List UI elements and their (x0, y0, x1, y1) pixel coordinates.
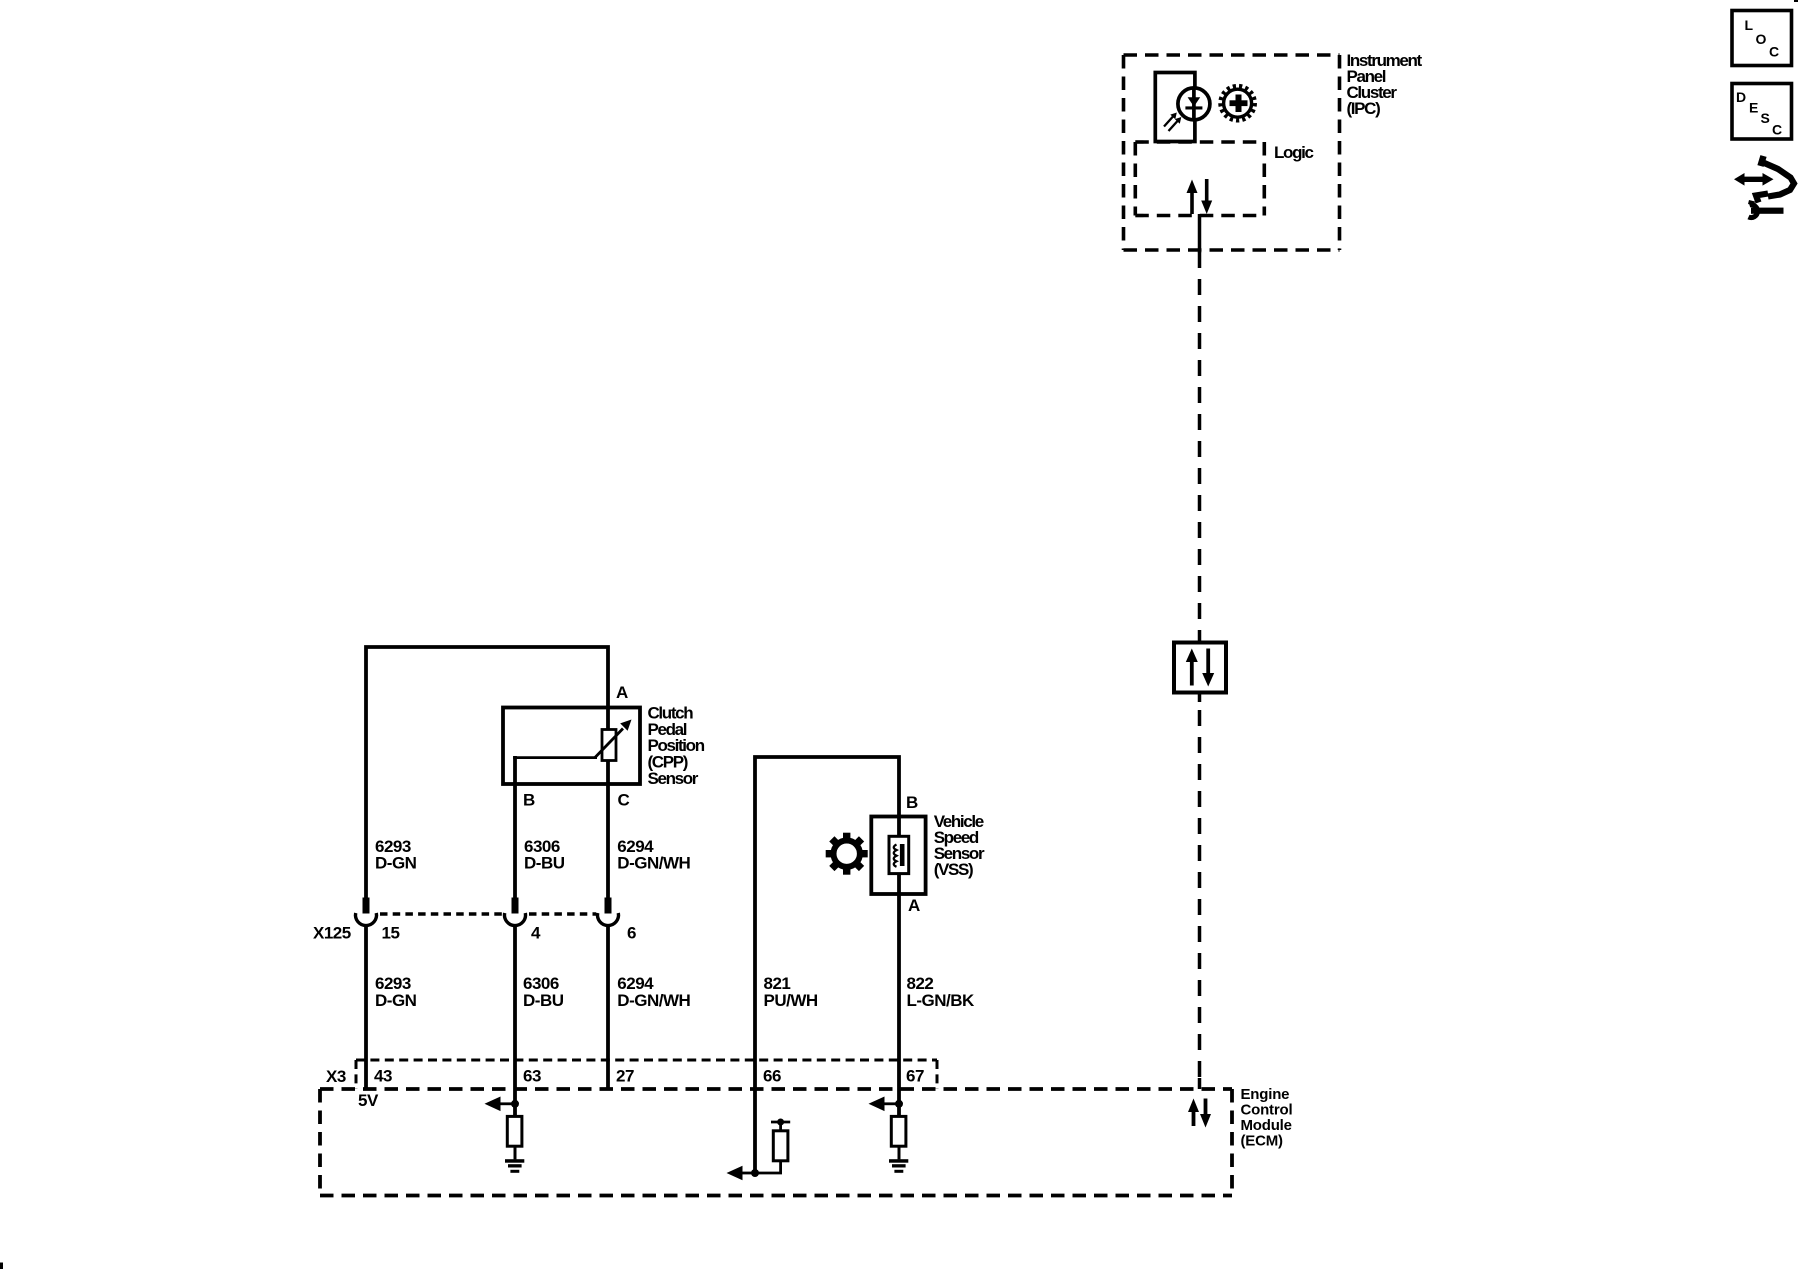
svg-text:B: B (906, 793, 918, 812)
svg-text:Sensor: Sensor (648, 769, 699, 788)
svg-text:66: 66 (763, 1067, 781, 1086)
svg-text:A: A (908, 896, 920, 915)
svg-text:D-BU: D-BU (524, 854, 565, 873)
svg-text:(IPC): (IPC) (1347, 99, 1381, 118)
svg-text:D-GN/WH: D-GN/WH (617, 991, 690, 1010)
svg-text:S: S (1761, 110, 1770, 126)
svg-text:X3: X3 (326, 1067, 346, 1086)
svg-text:Logic: Logic (1274, 143, 1313, 162)
svg-text:A: A (616, 683, 628, 702)
svg-text:D-BU: D-BU (523, 991, 564, 1010)
svg-text:D: D (1736, 89, 1746, 105)
svg-text:D-GN: D-GN (375, 854, 417, 873)
svg-text:PU/WH: PU/WH (764, 991, 818, 1010)
svg-text:B: B (523, 791, 535, 810)
svg-text:D-GN: D-GN (375, 991, 417, 1010)
svg-text:C: C (1772, 122, 1782, 138)
svg-text:15: 15 (382, 923, 400, 942)
svg-text:L-GN/BK: L-GN/BK (907, 991, 976, 1010)
svg-text:Engine: Engine (1241, 1086, 1290, 1103)
svg-text:C: C (1769, 44, 1779, 60)
svg-text:67: 67 (906, 1067, 924, 1086)
svg-text:Control: Control (1241, 1102, 1293, 1119)
svg-text:Module: Module (1241, 1117, 1292, 1134)
svg-text:63: 63 (523, 1067, 541, 1086)
svg-text:D-GN/WH: D-GN/WH (617, 854, 690, 873)
svg-text:43: 43 (374, 1067, 392, 1086)
svg-text:(VSS): (VSS) (934, 860, 973, 879)
svg-text:27: 27 (616, 1067, 634, 1086)
svg-text:5V: 5V (358, 1091, 379, 1110)
svg-text:C: C (618, 791, 630, 810)
svg-text:X125: X125 (313, 923, 351, 942)
svg-text:O: O (1756, 31, 1767, 47)
svg-text:(ECM): (ECM) (1241, 1133, 1284, 1150)
svg-text:6: 6 (627, 923, 636, 942)
svg-text:L: L (1745, 17, 1754, 33)
svg-text:4: 4 (531, 923, 541, 942)
svg-text:E: E (1749, 100, 1758, 116)
